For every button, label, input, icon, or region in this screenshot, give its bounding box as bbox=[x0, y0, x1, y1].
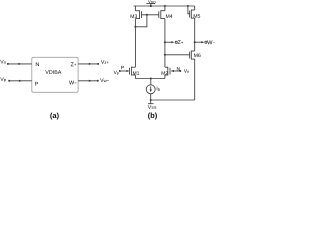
current source Ib bbox=[146, 85, 155, 94]
label node P bbox=[121, 66, 124, 69]
wire Vz+ output bbox=[78, 63, 98, 65]
VDD supply symbol bbox=[146, 3, 155, 5]
wire P input to M1 gate bbox=[120, 70, 128, 72]
label M2 bbox=[162, 71, 168, 74]
wire M3 drain to M1 drain bbox=[134, 19, 136, 68]
junction dot M4 source at rail bbox=[164, 5, 166, 7]
label pin P bbox=[35, 82, 38, 86]
terminal dot Vz+ bbox=[97, 63, 99, 65]
label M4 bbox=[166, 14, 173, 18]
wire Z+ tap bbox=[165, 41, 173, 43]
wire W- tap bbox=[195, 41, 203, 43]
arrowhead current source bbox=[150, 89, 152, 92]
label VDD bbox=[148, 0, 155, 3]
wire N input to M2 gate bbox=[171, 70, 180, 72]
label M6 bbox=[194, 53, 200, 57]
label VSS bbox=[148, 105, 156, 109]
label pin W- bbox=[69, 81, 77, 85]
label Vp bbox=[0, 77, 6, 82]
arrowhead Vn input bbox=[19, 63, 22, 65]
wire tail to current source bbox=[150, 79, 152, 85]
label M3 bbox=[131, 14, 137, 18]
VSS supply symbol bbox=[150, 100, 152, 104]
label Vn at M2 bbox=[184, 69, 189, 73]
transistor M4 bbox=[160, 10, 162, 19]
terminal circle Z+ bbox=[175, 41, 177, 43]
junction dot VSS bbox=[150, 99, 152, 101]
terminal circle W- bbox=[205, 41, 207, 43]
label Vp at M1 bbox=[114, 71, 119, 75]
wire current source to VSS bbox=[150, 94, 152, 100]
label Vn bbox=[0, 60, 6, 64]
wire Vn input bbox=[8, 63, 32, 65]
wire M1 source bbox=[134, 75, 136, 79]
label node N bbox=[177, 67, 180, 70]
arrowhead Z+ bbox=[171, 41, 174, 43]
terminal dot P bbox=[119, 70, 121, 72]
VDD rail bbox=[134, 5, 195, 7]
transistor M2 bbox=[167, 67, 169, 76]
junction dot Z gate tap bbox=[164, 54, 166, 56]
wire M5 drain / W node bbox=[194, 18, 196, 51]
wire tail node bbox=[135, 78, 165, 80]
label (a) bbox=[50, 113, 58, 120]
terminal dot N bbox=[179, 70, 181, 72]
junction dot M3 diode at drain bbox=[134, 26, 136, 28]
junction dot M3 gate tap bbox=[146, 14, 148, 16]
label Vw- bbox=[100, 78, 109, 82]
arrowhead Vz+ output bbox=[89, 63, 92, 65]
label (b) bbox=[148, 112, 157, 119]
wire M3 source bbox=[134, 6, 136, 11]
label Vz+ bbox=[101, 60, 109, 64]
transistor M1 bbox=[130, 67, 132, 76]
junction dot Z arrow bbox=[164, 41, 166, 43]
label node Z+ bbox=[178, 40, 183, 44]
wire M3 gate to M4 gate bbox=[142, 14, 159, 16]
junction dot tail bbox=[150, 78, 152, 80]
label M1 bbox=[133, 71, 139, 74]
wire M4 drain / Z node bbox=[164, 19, 166, 68]
arrowhead Vp input bbox=[19, 80, 22, 82]
label node W- bbox=[207, 40, 215, 44]
terminal dot Vn bbox=[7, 63, 9, 65]
transistor M5 bbox=[190, 10, 192, 19]
junction dot M5 gate at rail bbox=[187, 5, 189, 7]
wire M6 source to VSS rail bbox=[194, 59, 196, 100]
arrowhead W- bbox=[201, 41, 204, 43]
wire M5 gate to rail bbox=[188, 6, 190, 14]
wire M5 source bbox=[194, 6, 196, 10]
label pin N bbox=[36, 62, 39, 66]
wire M4 source bbox=[164, 6, 166, 11]
transistor M3 bbox=[139, 10, 141, 19]
junction dot W arrow bbox=[194, 41, 196, 43]
wire Z node to M6 gate bbox=[165, 54, 190, 56]
wire M3 diode connection bbox=[135, 15, 147, 27]
wire M2 source bbox=[164, 75, 166, 79]
label Ib bbox=[157, 87, 160, 91]
terminal dot Vp bbox=[8, 80, 10, 82]
wire Vp input bbox=[9, 80, 32, 82]
wire Vw- output bbox=[78, 80, 98, 82]
VSS rail bbox=[151, 99, 195, 101]
arrowhead Vw- output bbox=[89, 80, 92, 82]
arrowhead P into M1 bbox=[127, 70, 130, 72]
block VDIBA symbol (a) bbox=[32, 57, 78, 92]
arrowhead N into M2 bbox=[171, 70, 174, 72]
label pin Z+ bbox=[71, 62, 77, 66]
terminal dot Vw- bbox=[97, 80, 99, 82]
transistor M6 bbox=[190, 51, 192, 60]
label M5 bbox=[194, 14, 200, 18]
label VDIBA bbox=[45, 70, 61, 74]
junction dot VDD tap bbox=[150, 5, 152, 7]
